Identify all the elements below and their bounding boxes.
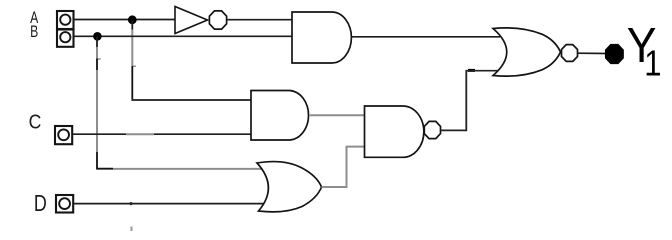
wire A-branch marker nub (132, 65, 136, 67)
wire A-branch vertical (gray seg) (131, 30, 133, 67)
wire into NAND lower input (gray) (347, 146, 365, 148)
output label subscript 1 (644, 44, 661, 84)
junction node on A wire (128, 15, 137, 24)
wire G4 to NAND vertical (gray) (346, 146, 348, 188)
wire C black seg into AND2 (154, 133, 252, 135)
input label B (30, 23, 38, 41)
svg-text:1: 1 (644, 44, 661, 84)
OR gate G4 (bottom) (257, 162, 322, 212)
stray gray tick bottom (131, 227, 133, 232)
NOR gate G5 body (493, 28, 561, 76)
output label Y (627, 17, 657, 73)
wire C black seg (73, 133, 127, 135)
input connector A (square with circle) (57, 11, 74, 29)
AND gate G2 (middle) (251, 91, 309, 141)
wire marker nub on NOR lower input (468, 69, 475, 72)
wire B-branch vertical black seg 2 (96, 59, 98, 71)
wire B-branch vertical gray seg 2 (96, 70, 98, 152)
wire B from connector to AND1 (74, 35, 293, 37)
input label D (34, 191, 47, 217)
input label A (30, 9, 38, 27)
wire B-branch vertical black seg (96, 36, 98, 47)
junction node on B wire (93, 32, 102, 41)
inverter U1 output bubble (209, 11, 226, 29)
wire G2 output to NAND input (gray) (310, 114, 365, 116)
wire D to OR gate (74, 203, 265, 205)
wire A-branch vertical (black seg) (131, 20, 133, 30)
output terminal dot Y1 (606, 45, 623, 64)
wire NAND output horizontal (441, 129, 467, 131)
NAND gate G3 body (365, 106, 424, 157)
wire C gray seg (126, 133, 154, 135)
inverter U1 triangle (175, 7, 208, 34)
wire NAND output vertical up (465, 70, 467, 131)
input connector D (square with circle) (56, 195, 73, 213)
input connector B (square with circle) (57, 30, 74, 47)
input label C (29, 110, 42, 132)
wire B-branch vertical gray seg (96, 47, 98, 59)
wire inverter output to AND1 (227, 19, 293, 21)
wire B-branch horizontal gray seg to OR input (113, 168, 263, 170)
input connector C (square with circle) (55, 126, 72, 144)
wire A from connector to inverter (74, 19, 176, 21)
wire B-branch vertical black seg 3 (96, 152, 98, 169)
wire A-branch horizontal into AND2 (131, 99, 251, 101)
wire into NOR lower input (466, 70, 504, 72)
svg-text:D: D (34, 191, 47, 217)
wire B-branch horizontal black seg (96, 168, 113, 170)
wire G1 output to NOR input (351, 36, 500, 38)
NOR gate G5 output bubble (562, 45, 578, 62)
svg-text:C: C (29, 110, 42, 132)
wire A-branch vertical (black seg 2) (131, 66, 133, 99)
svg-text:B: B (30, 23, 38, 41)
wire G4 output (gray) (322, 186, 347, 188)
wire B-branch marker nub (97, 58, 101, 60)
stray dot on D wire (129, 202, 132, 205)
NAND gate G3 output bubble (424, 121, 440, 138)
AND gate G1 (top) (292, 12, 351, 63)
wire NOR output to terminal (578, 52, 607, 54)
